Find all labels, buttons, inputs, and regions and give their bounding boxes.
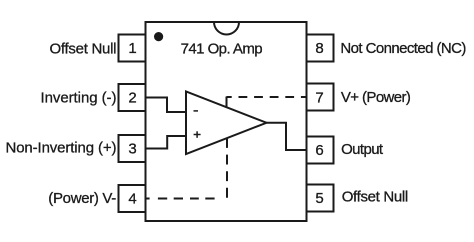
svg-text:4: 4 (128, 191, 136, 208)
svg-text:(Power) V-: (Power) V- (48, 190, 116, 207)
svg-text:Not Connected (NC): Not Connected (NC) (340, 40, 466, 57)
svg-text:V+ (Power): V+ (Power) (341, 89, 411, 106)
svg-text:6: 6 (315, 142, 323, 159)
svg-text:Non-Inverting (+): Non-Inverting (+) (6, 139, 117, 156)
svg-text:Output: Output (341, 141, 384, 158)
svg-text:741 Op. Amp: 741 Op. Amp (181, 40, 263, 57)
svg-text:5: 5 (315, 190, 323, 207)
svg-text:Inverting (-): Inverting (-) (41, 89, 117, 106)
svg-text:2: 2 (128, 90, 136, 107)
svg-text:3: 3 (128, 140, 136, 157)
svg-text:7: 7 (315, 89, 323, 106)
svg-text:Offset Null: Offset Null (342, 188, 409, 205)
svg-text:8: 8 (315, 40, 323, 57)
svg-text:Offset Null: Offset Null (50, 41, 117, 58)
svg-text:1: 1 (128, 40, 136, 57)
